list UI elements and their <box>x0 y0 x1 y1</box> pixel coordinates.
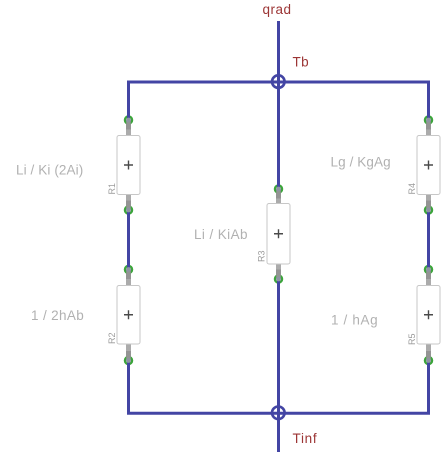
svg-text:Tb: Tb <box>293 55 310 70</box>
wire bottom stub below Tinf node <box>277 413 280 452</box>
resistor R4 <box>407 114 440 216</box>
resistor R5 <box>407 264 440 367</box>
svg-text:R5: R5 <box>407 333 417 345</box>
resistor R2 <box>107 264 140 367</box>
wire middle branch lower segment <box>277 279 280 413</box>
svg-text:Tinf: Tinf <box>293 431 318 446</box>
resistor R3 <box>257 183 291 285</box>
svg-text:qrad: qrad <box>263 2 292 17</box>
svg-text:R3: R3 <box>257 250 267 262</box>
svg-text:R2: R2 <box>107 332 117 344</box>
svg-text:R1: R1 <box>107 183 117 195</box>
svg-text:1 / 2hAb: 1 / 2hAb <box>31 308 84 323</box>
wire middle branch upper segment <box>277 82 280 189</box>
svg-text:Lg / KgAg: Lg / KgAg <box>331 154 391 169</box>
wire right branch between R4 and R5 <box>427 210 430 270</box>
wire top stub from qrad to Tb node <box>277 21 280 82</box>
svg-text:Li / Ki (2Ai): Li / Ki (2Ai) <box>16 162 83 177</box>
node Tb <box>272 75 285 88</box>
wire left branch between R1 and R2 <box>127 210 130 270</box>
resistor R1 <box>107 114 140 216</box>
svg-text:Li / KiAb: Li / KiAb <box>194 227 248 242</box>
svg-text:1 / hAg: 1 / hAg <box>331 313 378 328</box>
node Tinf <box>272 407 285 420</box>
svg-text:R4: R4 <box>407 183 417 195</box>
wire top rail with left and right branch verticals <box>129 82 429 120</box>
wire bottom rail with left and right branch verticals <box>129 361 429 414</box>
